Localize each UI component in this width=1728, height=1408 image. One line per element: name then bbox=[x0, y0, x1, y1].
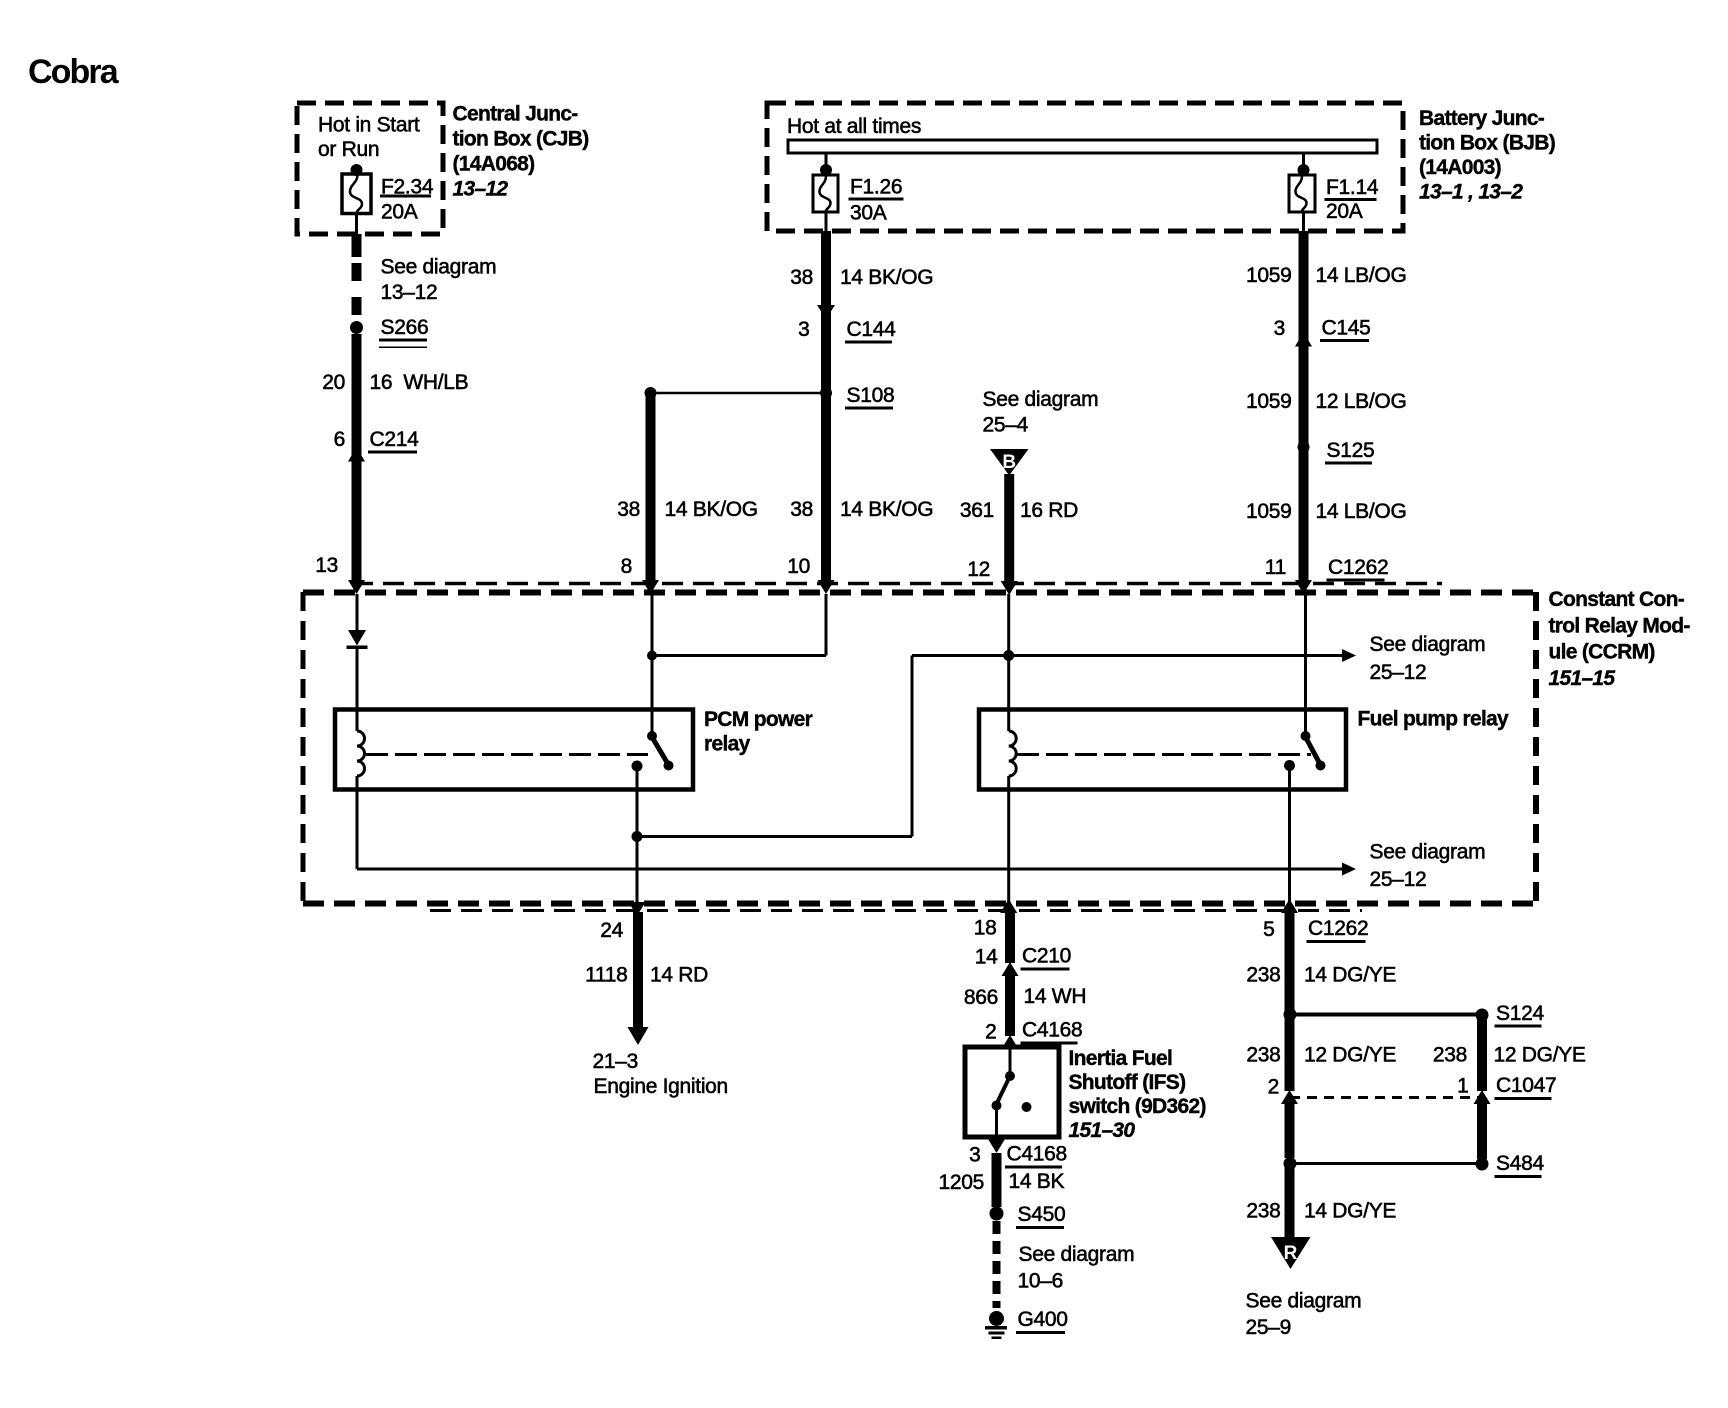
connector C4168 exit arrow (pin 3) bbox=[988, 1139, 1005, 1153]
label: S484 bbox=[1495, 1152, 1545, 1178]
svg-text:238: 238 bbox=[1433, 1044, 1467, 1067]
svg-text:C4168: C4168 bbox=[1022, 1019, 1082, 1042]
svg-text:C4168: C4168 bbox=[1007, 1143, 1067, 1166]
svg-text:C1047: C1047 bbox=[1496, 1074, 1556, 1097]
wire: feedback riser bbox=[911, 656, 914, 837]
value label: 238 / 12 DG/YE (right) bbox=[1433, 1044, 1586, 1067]
svg-text:S125: S125 bbox=[1327, 439, 1375, 462]
value label: 1059 / 14 LB/OG bbox=[1246, 264, 1407, 287]
svg-text:866: 866 bbox=[964, 986, 998, 1009]
splice S125 bbox=[1298, 441, 1310, 453]
wire: S108 branch to left leg bbox=[651, 392, 827, 395]
svg-text:Constant Con-: Constant Con- bbox=[1549, 588, 1685, 611]
pin 12 entry arrow bbox=[1001, 581, 1018, 595]
pin 13 entry arrow bbox=[348, 580, 365, 594]
wire: pin 8 to PCM relay common contact bbox=[651, 594, 654, 736]
label: See diagram 10-6 bbox=[1018, 1243, 1135, 1293]
svg-text:or Run: or Run bbox=[318, 138, 379, 161]
IFS switch bottom contact bbox=[992, 1101, 1002, 1111]
svg-text:25–12: 25–12 bbox=[1370, 868, 1427, 891]
svg-text:14 DG/YE: 14 DG/YE bbox=[1304, 964, 1396, 987]
wire: fuel pump relay coil to pin 18 bbox=[1007, 776, 1010, 903]
svg-text:C210: C210 bbox=[1022, 945, 1071, 968]
IFS switch spare contact bbox=[1022, 1102, 1032, 1112]
junction: PCM output feedback tap bbox=[632, 831, 643, 842]
PCM relay coil K1 bbox=[357, 731, 365, 776]
label: See diagram 25-4 bbox=[983, 388, 1099, 437]
pin label: 3 / connector label C145 bbox=[1274, 317, 1371, 343]
wire: fuse F1.14 to BJB box edge bbox=[1302, 212, 1305, 231]
value label: F1.26 30A bbox=[849, 176, 904, 225]
value label: 238 / 14 DG/YE (bottom) bbox=[1246, 1200, 1396, 1223]
value label: F1.14 20A bbox=[1325, 176, 1379, 223]
svg-text:Hot at all times: Hot at all times bbox=[787, 115, 921, 138]
label: See diagram 13-12 bbox=[381, 256, 497, 305]
svg-text:See diagram: See diagram bbox=[1019, 1243, 1135, 1266]
IFS switch top contact bbox=[1005, 1071, 1015, 1081]
svg-text:See diagram: See diagram bbox=[1246, 1290, 1362, 1313]
svg-text:Engine Ignition: Engine Ignition bbox=[594, 1075, 728, 1098]
label: S266 bbox=[379, 316, 428, 348]
svg-text:1059: 1059 bbox=[1246, 264, 1292, 287]
svg-text:10: 10 bbox=[787, 555, 810, 578]
value label: 1118 / 14 RD bbox=[585, 964, 708, 987]
svg-text:14: 14 bbox=[975, 946, 998, 969]
svg-text:Shutoff (IFS): Shutoff (IFS) bbox=[1069, 1071, 1186, 1094]
wire: pin 10 into CCRM bbox=[825, 594, 828, 656]
svg-text:38: 38 bbox=[790, 498, 813, 521]
wire: fuse F2.34 to CJB box edge bbox=[355, 213, 358, 234]
value label: 38 / 14 BK/OG (left leg) bbox=[617, 498, 758, 521]
wire: S450 to G400, dashed off-page section bbox=[993, 1221, 1001, 1308]
fuel pump relay coil-contact dashed link bbox=[1017, 753, 1311, 756]
wire: circuit 361 (16 RD) B to CCRM pin 12 bbox=[1004, 474, 1014, 581]
wire: circuit 20 (16 WH/LB) CJB to S266, dashed off-page section bbox=[352, 234, 362, 315]
svg-text:14 LB/OG: 14 LB/OG bbox=[1316, 500, 1407, 523]
label: See diagram 25-9 bbox=[1246, 1290, 1362, 1340]
wire: feedback tap horizontal bbox=[637, 835, 912, 838]
wire: circuit 1205 (14 BK) C4168 to S450 bbox=[992, 1153, 1002, 1207]
svg-text:13–12: 13–12 bbox=[453, 178, 509, 201]
pin 10 entry arrow bbox=[818, 580, 835, 594]
svg-text:38: 38 bbox=[790, 266, 813, 289]
svg-text:12 LB/OG: 12 LB/OG bbox=[1316, 390, 1407, 413]
value label: 238 / 14 DG/YE bbox=[1246, 964, 1396, 987]
svg-text:10–6: 10–6 bbox=[1018, 1270, 1064, 1293]
svg-text:relay: relay bbox=[704, 733, 751, 756]
pin label: 14 / connector label C210 bbox=[975, 945, 1071, 971]
off-page connector R bbox=[1271, 1237, 1311, 1269]
svg-text:238: 238 bbox=[1246, 964, 1280, 987]
splice S108 bbox=[820, 387, 832, 399]
node: fuse F2.34 top terminal bbox=[351, 164, 363, 176]
connector C144 arrow bbox=[817, 305, 835, 319]
svg-text:8: 8 bbox=[621, 555, 632, 578]
svg-text:14 DG/YE: 14 DG/YE bbox=[1304, 1200, 1396, 1223]
pin label: 2 / connector label C4168 bbox=[985, 1019, 1082, 1045]
svg-text:3: 3 bbox=[1274, 317, 1285, 340]
PCM relay output terminal bbox=[632, 761, 643, 772]
wire: circuit 238 (12 DG/YE) S124 branch down bbox=[1477, 1015, 1487, 1091]
svg-text:2: 2 bbox=[985, 1021, 996, 1044]
svg-text:Inertia Fuel: Inertia Fuel bbox=[1069, 1047, 1173, 1070]
svg-text:S124: S124 bbox=[1496, 1002, 1544, 1025]
Battery Junction Box (BJB) dashed enclosure bbox=[767, 103, 1403, 231]
value label: 361 / 16 RD bbox=[960, 499, 1078, 522]
svg-text:20A: 20A bbox=[1326, 200, 1363, 223]
connector C145 arrow bbox=[1295, 332, 1312, 347]
svg-text:238: 238 bbox=[1246, 1044, 1280, 1067]
connector C210 arrow bbox=[1002, 962, 1019, 976]
fuse F1.26 bbox=[813, 175, 838, 212]
bus bar (hot at all times feed) bbox=[788, 140, 1377, 153]
splice S266 bbox=[350, 321, 363, 334]
svg-text:ule (CCRM): ule (CCRM) bbox=[1549, 641, 1655, 664]
label: 21-3 Engine Ignition bbox=[593, 1050, 728, 1098]
svg-text:Fuel pump relay: Fuel pump relay bbox=[1358, 708, 1510, 731]
svg-text:25–4: 25–4 bbox=[983, 414, 1029, 437]
svg-text:Hot in Start: Hot in Start bbox=[318, 114, 420, 137]
svg-text:(14A068): (14A068) bbox=[453, 153, 535, 176]
svg-text:13–12: 13–12 bbox=[381, 281, 438, 304]
svg-text:S108: S108 bbox=[847, 384, 895, 407]
connector C4168 arrow (pin 2) bbox=[1002, 1035, 1019, 1049]
fuel pump relay blade end bbox=[1316, 761, 1326, 771]
wire: circuit 1059 (14 LB/OG) F1.14 to CCRM pin 11 bbox=[1299, 231, 1309, 581]
svg-text:F1.26: F1.26 bbox=[850, 176, 902, 199]
svg-text:14 BK: 14 BK bbox=[1009, 1170, 1065, 1193]
diode CR (PCM power relay coil suppression) bbox=[347, 630, 368, 649]
pin 5 exit arrow bbox=[1281, 899, 1298, 913]
svg-text:See diagram: See diagram bbox=[1370, 633, 1486, 656]
fuel pump relay fixed contact bbox=[1301, 731, 1311, 741]
svg-text:S450: S450 bbox=[1018, 1203, 1066, 1226]
svg-text:14 BK/OG: 14 BK/OG bbox=[840, 266, 933, 289]
svg-text:PCM power: PCM power bbox=[704, 708, 813, 731]
off-page connector B bbox=[990, 449, 1029, 476]
svg-text:20A: 20A bbox=[381, 201, 418, 224]
svg-text:21–3: 21–3 bbox=[593, 1050, 639, 1073]
wire: fuse F1.26 to BJB box edge bbox=[825, 212, 828, 231]
svg-text:R: R bbox=[1284, 1243, 1298, 1264]
svg-text:25–9: 25–9 bbox=[1246, 1316, 1292, 1339]
svg-text:16 RD: 16 RD bbox=[1020, 499, 1078, 522]
wire: diode to PCM relay coil bbox=[356, 649, 359, 731]
connector C1047 dashed interface line bbox=[1290, 1096, 1482, 1099]
svg-text:12 DG/YE: 12 DG/YE bbox=[1304, 1044, 1396, 1067]
svg-text:11: 11 bbox=[1265, 556, 1286, 579]
label: PCM power relay bbox=[704, 708, 813, 756]
pin label: 3 / connector label C4168 bbox=[969, 1143, 1067, 1169]
fuse F1.14 bbox=[1289, 175, 1315, 212]
svg-text:Central Junc-: Central Junc- bbox=[453, 103, 579, 126]
svg-text:B: B bbox=[1002, 452, 1016, 473]
label: See diagram 25-12 (lower) bbox=[1370, 841, 1486, 892]
label: S108 bbox=[845, 384, 894, 410]
value label: F2.34 20A bbox=[380, 176, 434, 224]
junction: S124 tap on circuit 238 bbox=[1284, 1008, 1297, 1021]
label: See diagram 25-12 (upper) bbox=[1370, 633, 1486, 684]
wire: IFS switch output bbox=[995, 1106, 998, 1138]
svg-text:24: 24 bbox=[600, 919, 623, 942]
value label: 1205 / 14 BK bbox=[938, 1170, 1064, 1194]
PCM relay switch blade bbox=[652, 737, 668, 764]
wire: net to see-diagram 25-12 (lower) bbox=[357, 868, 1344, 871]
svg-text:Battery Junc-: Battery Junc- bbox=[1419, 107, 1545, 130]
svg-text:S484: S484 bbox=[1496, 1152, 1544, 1175]
svg-text:6: 6 bbox=[334, 428, 345, 451]
svg-text:S266: S266 bbox=[381, 316, 429, 339]
pin label: 5 / connector label C1262 bbox=[1263, 917, 1368, 943]
pin 18 exit arrow bbox=[1000, 899, 1017, 913]
svg-text:30A: 30A bbox=[850, 202, 887, 225]
PCM relay fixed contact bbox=[647, 731, 657, 741]
svg-text:C1262: C1262 bbox=[1328, 556, 1388, 579]
CCRM dashed enclosure right edge bbox=[1533, 592, 1539, 904]
svg-text:See diagram: See diagram bbox=[983, 388, 1099, 411]
svg-text:Cobra: Cobra bbox=[28, 53, 120, 91]
svg-text:1118: 1118 bbox=[585, 964, 627, 987]
node: left branch top bbox=[645, 387, 657, 399]
wire: IFS switch input bbox=[1009, 1049, 1012, 1072]
connector C1047 arrow (pin 1) bbox=[1474, 1090, 1491, 1104]
wire: bus bar to fuse F1.26 bbox=[825, 153, 828, 166]
wire: circuit 238 below C1047 (left) bbox=[1285, 1104, 1295, 1158]
label: S125 bbox=[1325, 439, 1374, 465]
value label: 38 / 14 BK/OG bbox=[790, 266, 933, 289]
Fuel pump relay box bbox=[979, 710, 1346, 790]
label: S450 bbox=[1016, 1203, 1065, 1229]
svg-text:13–1 , 13–2: 13–1 , 13–2 bbox=[1419, 181, 1523, 204]
svg-text:1: 1 bbox=[1457, 1075, 1468, 1098]
wire: circuit 20 (16 WH/LB) S266 to CCRM pin 13 bbox=[352, 334, 362, 581]
wire: circuit 38 (14 BK/OG) F1.26 to S108 bbox=[821, 231, 831, 581]
PCM power relay box bbox=[335, 710, 693, 790]
svg-text:151–15: 151–15 bbox=[1549, 667, 1616, 690]
svg-text:3: 3 bbox=[969, 1144, 980, 1167]
svg-text:1059: 1059 bbox=[1246, 500, 1292, 523]
wire: net to see-diagram 25-12 (upper) bbox=[912, 654, 1344, 657]
wire: circuit 38 (14 BK/OG) branch to CCRM pin 8 bbox=[646, 393, 656, 581]
pin labels: 2 and 1 / connector label C1047 bbox=[1268, 1074, 1557, 1100]
label: Central Junction Box (CJB) (14A068) 13-12 bbox=[453, 103, 589, 201]
svg-text:25–12: 25–12 bbox=[1370, 661, 1427, 684]
wire: pin 11 to fuel pump relay fixed contact bbox=[1304, 594, 1307, 736]
svg-text:38: 38 bbox=[617, 498, 640, 521]
label: Battery Junction Box (BJB) (14A003) 13-1, 13-2 bbox=[1419, 107, 1555, 204]
svg-text:14 RD: 14 RD bbox=[650, 964, 708, 987]
wire: circuit 238 below C1047 (right) bbox=[1477, 1104, 1487, 1159]
CCRM dashed enclosure left edge bbox=[301, 592, 306, 904]
svg-text:G400: G400 bbox=[1018, 1308, 1068, 1331]
PCM relay blade end bbox=[664, 761, 674, 771]
svg-text:3: 3 bbox=[798, 318, 809, 341]
svg-text:20: 20 bbox=[322, 371, 345, 394]
svg-text:trol Relay Mod-: trol Relay Mod- bbox=[1549, 614, 1691, 637]
fuel pump relay coil K2 bbox=[1009, 731, 1017, 776]
pin label: 6 / connector label C214 bbox=[334, 428, 420, 454]
svg-text:1059: 1059 bbox=[1246, 390, 1292, 413]
svg-text:C145: C145 bbox=[1322, 317, 1371, 340]
wire: pin 13 to diode bbox=[356, 594, 359, 630]
pin 24 exit arrow bbox=[629, 902, 646, 916]
wire: PCM relay output to pin 24 bbox=[636, 766, 639, 903]
value label: 38 / 14 BK/OG (right leg) bbox=[790, 498, 933, 521]
value label: 238 / 12 DG/YE (left) bbox=[1246, 1044, 1396, 1067]
wire: circuit 1118 (14 RD) pin 24 to engine ignition bbox=[633, 912, 643, 1028]
ground G400 bbox=[985, 1311, 1007, 1339]
splice S484 bbox=[1476, 1158, 1489, 1171]
svg-text:14 WH: 14 WH bbox=[1024, 985, 1087, 1008]
wire: S484 bridge bbox=[1290, 1162, 1482, 1165]
value label: 866 / 14 WH bbox=[964, 985, 1086, 1009]
svg-text:2: 2 bbox=[1268, 1076, 1279, 1099]
svg-text:5: 5 bbox=[1263, 918, 1274, 941]
svg-text:1205: 1205 bbox=[938, 1171, 984, 1194]
svg-text:C144: C144 bbox=[847, 318, 897, 341]
wire: circuit 238 (14 DG/YE) pin 5 to C1047 bbox=[1285, 912, 1295, 1091]
label: Constant Control Relay Module (CCRM) 151-15 bbox=[1549, 588, 1691, 690]
arrow: to 21-3 engine ignition bbox=[628, 1027, 649, 1045]
svg-text:See diagram: See diagram bbox=[381, 256, 497, 279]
svg-text:12 DG/YE: 12 DG/YE bbox=[1494, 1044, 1586, 1067]
net label: Hot in Start or Run bbox=[318, 114, 420, 162]
svg-text:14 LB/OG: 14 LB/OG bbox=[1316, 264, 1407, 287]
wire: circuit 238 (14 DG/YE) to off-page connector R bbox=[1285, 1164, 1295, 1237]
svg-text:C1262: C1262 bbox=[1308, 917, 1368, 940]
connector C214 arrow bbox=[348, 447, 365, 462]
fuel pump relay switch blade bbox=[1306, 737, 1321, 764]
arrow: see diagram 25-12 (upper) bbox=[1342, 649, 1356, 662]
svg-text:238: 238 bbox=[1246, 1200, 1280, 1223]
wire: junction pins 8-10 bbox=[652, 654, 826, 657]
wire: fuel pump relay output to pin 5 bbox=[1288, 766, 1291, 904]
splice S450 bbox=[990, 1207, 1004, 1221]
wire: PCM coil to see-diagram 25-12 line bbox=[356, 776, 359, 869]
svg-text:12: 12 bbox=[967, 558, 990, 581]
svg-text:18: 18 bbox=[974, 917, 997, 940]
splice S124 bbox=[1476, 1009, 1489, 1022]
svg-text:F1.14: F1.14 bbox=[1326, 176, 1379, 199]
wire: bus bar to fuse F1.14 bbox=[1302, 153, 1305, 166]
svg-text:14 BK/OG: 14 BK/OG bbox=[840, 498, 933, 521]
connector C1047 arrow (pin 2) bbox=[1281, 1090, 1298, 1104]
Inertia Fuel Shutoff (IFS) switch box bbox=[965, 1047, 1059, 1137]
svg-text:(14A003): (14A003) bbox=[1419, 156, 1501, 179]
svg-text:361: 361 bbox=[960, 499, 994, 522]
svg-text:See diagram: See diagram bbox=[1370, 841, 1486, 864]
CCRM dashed enclosure bottom edge bbox=[303, 904, 1536, 911]
node: fuse F1.26 top terminal bbox=[820, 164, 832, 176]
svg-text:tion Box (CJB): tion Box (CJB) bbox=[453, 128, 589, 151]
fuse F2.34 bbox=[342, 174, 371, 214]
value label: 1059 / 12 LB/OG bbox=[1246, 390, 1407, 413]
wire: pin 12 to fuel pump relay coil bbox=[1007, 594, 1010, 731]
wire: S124 bridge bbox=[1290, 1013, 1482, 1017]
junction: S484 tap (left) bbox=[1284, 1157, 1297, 1170]
value label: 1059 / 14 LB/OG (lower) bbox=[1246, 500, 1407, 523]
svg-text:151–30: 151–30 bbox=[1069, 1119, 1136, 1142]
value label: 20 / 16 WH/LB bbox=[322, 371, 468, 394]
svg-text:14 BK/OG: 14 BK/OG bbox=[665, 498, 758, 521]
pin label: 3 / connector label C144 bbox=[798, 318, 896, 344]
svg-text:C214: C214 bbox=[370, 428, 420, 451]
node: fuse F1.14 top terminal bbox=[1298, 164, 1310, 176]
wire: pin 18 to C210 bbox=[1005, 912, 1015, 963]
wire: circuit 866 (14 WH) C210 to C4168 bbox=[1005, 976, 1015, 1036]
arrow: see diagram 25-12 (lower) bbox=[1342, 863, 1356, 876]
label: Inertia Fuel Shutoff (IFS) switch (9D362) 151-30 bbox=[1069, 1047, 1206, 1142]
pin label: 11 / connector label C1262 bbox=[1265, 556, 1389, 582]
label: S124 bbox=[1495, 1002, 1545, 1028]
CCRM dashed enclosure top edge bbox=[303, 584, 1536, 593]
pin 11 entry arrow bbox=[1295, 580, 1312, 594]
svg-text:tion Box (BJB): tion Box (BJB) bbox=[1419, 132, 1555, 155]
pin 8 entry arrow bbox=[642, 580, 659, 594]
junction: pins 8 and 10 bbox=[647, 651, 657, 661]
PCM relay coil-contact dashed link bbox=[366, 753, 648, 756]
svg-text:16 WH/LB: 16 WH/LB bbox=[370, 371, 469, 394]
Central Junction Box (CJB) dashed enclosure bbox=[297, 103, 443, 234]
label: G400 bbox=[1016, 1308, 1068, 1334]
junction: pin 12 net tap bbox=[1003, 650, 1014, 661]
svg-text:switch (9D362): switch (9D362) bbox=[1069, 1095, 1206, 1118]
svg-text:13: 13 bbox=[315, 554, 338, 577]
fuel pump relay output terminal bbox=[1284, 760, 1295, 771]
IFS switch blade bbox=[997, 1076, 1011, 1104]
